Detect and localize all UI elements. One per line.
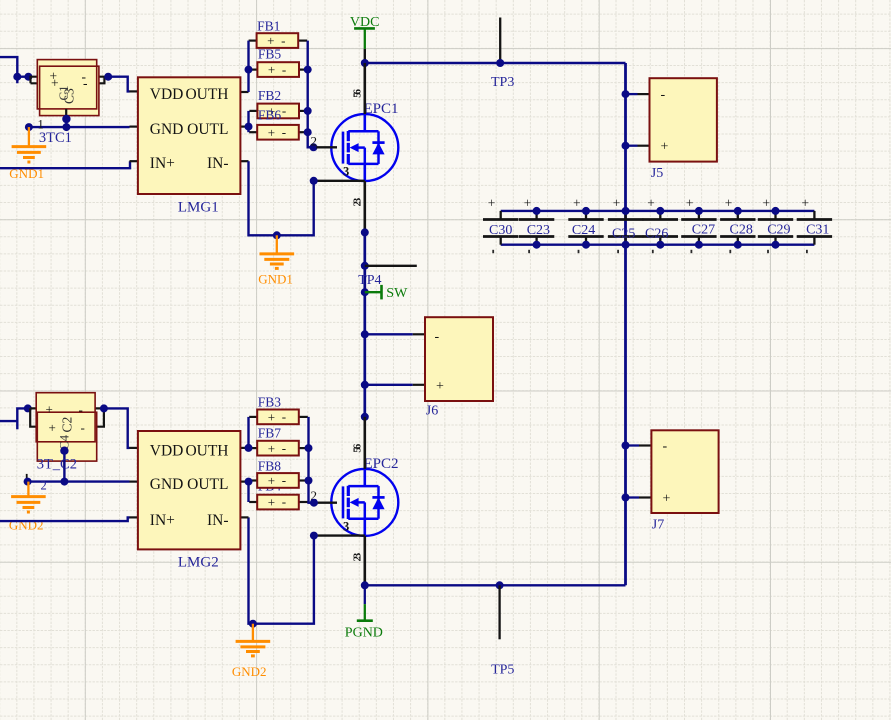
node bbox=[62, 123, 70, 131]
svg-text:C2: C2 bbox=[60, 417, 75, 433]
wire gate EPC2 bbox=[309, 502, 317, 504]
svg-text:GND: GND bbox=[150, 476, 184, 493]
svg-text:C1: C1 bbox=[56, 85, 71, 100]
connector J6 pins bbox=[365, 334, 425, 385]
node bbox=[60, 478, 68, 486]
node bbox=[622, 142, 630, 150]
wire to LMG1 GND bbox=[66, 126, 129, 128]
node bbox=[656, 241, 664, 249]
node bbox=[310, 532, 318, 540]
IC LMG1 left pins bbox=[130, 91, 139, 161]
svg-text:+: + bbox=[268, 495, 275, 510]
ground GND1 (second) bbox=[260, 235, 295, 268]
node bbox=[305, 444, 313, 452]
wire bbox=[65, 119, 67, 127]
svg-text:+: + bbox=[268, 410, 275, 425]
node bbox=[361, 381, 369, 389]
capacitor C27 bbox=[681, 196, 716, 254]
svg-text:+: + bbox=[488, 196, 496, 211]
ground GND2 bbox=[11, 482, 46, 512]
capacitor C2 body bbox=[37, 412, 96, 461]
node bbox=[622, 442, 630, 450]
transistor EPC1 symbol bbox=[343, 114, 385, 181]
svg-text:OUTH: OUTH bbox=[185, 442, 228, 459]
wire bbox=[0, 408, 28, 421]
svg-text:-: - bbox=[282, 473, 286, 488]
svg-text:-: - bbox=[83, 76, 88, 91]
node bbox=[13, 73, 21, 81]
wire bbox=[63, 451, 65, 482]
wire OUTL to FB8/FB4 bbox=[247, 481, 249, 503]
connector J6 body bbox=[425, 317, 493, 401]
capacitor C25 bbox=[608, 196, 643, 254]
ferrite bead FB1 pins bbox=[249, 39, 308, 41]
node bbox=[772, 241, 780, 249]
svg-text:+: + bbox=[661, 140, 669, 155]
svg-text:+: + bbox=[268, 473, 275, 488]
ferrite bead FB4 pins bbox=[249, 501, 308, 503]
node bbox=[100, 404, 108, 412]
ferrite bead FB5 pins bbox=[249, 68, 308, 70]
svg-text:SW: SW bbox=[386, 286, 408, 301]
IC LMG1 right pins bbox=[240, 92, 248, 161]
svg-text:LMG2: LMG2 bbox=[178, 555, 219, 571]
wire capacitor bank top rail bbox=[501, 210, 815, 212]
wire right bus bbox=[624, 63, 627, 585]
wire IN+ net 2 bbox=[0, 517, 130, 521]
svg-text:2: 2 bbox=[311, 133, 318, 148]
ferrite bead FB2 body bbox=[257, 104, 299, 119]
svg-text:C27: C27 bbox=[692, 223, 715, 238]
node bbox=[24, 73, 32, 81]
svg-text:VDD: VDD bbox=[150, 86, 184, 103]
svg-text:+: + bbox=[647, 196, 655, 211]
svg-text:C28: C28 bbox=[730, 223, 753, 238]
svg-text:OUTL: OUTL bbox=[187, 121, 228, 138]
wire OUTH to FB3/FB7 bbox=[247, 417, 249, 448]
svg-text:IN-: IN- bbox=[207, 512, 229, 529]
IC LMG2 left pins bbox=[130, 448, 139, 518]
node bbox=[734, 207, 742, 215]
node bbox=[304, 66, 312, 74]
svg-text:C25: C25 bbox=[612, 226, 635, 241]
connector J7 pins bbox=[626, 446, 652, 498]
wire IN- / gnd return 2 bbox=[249, 517, 314, 623]
svg-text:3T_C2: 3T_C2 bbox=[37, 457, 77, 473]
svg-text:-: - bbox=[435, 330, 440, 345]
node bbox=[533, 207, 541, 215]
IC LMG2 body bbox=[138, 431, 241, 549]
power port PGND bbox=[345, 585, 383, 640]
node bbox=[245, 444, 253, 452]
svg-text:GND: GND bbox=[150, 121, 184, 138]
svg-text:+: + bbox=[801, 196, 809, 211]
wire bbox=[0, 57, 17, 83]
capacitor C31 bbox=[797, 196, 832, 254]
node bbox=[533, 241, 541, 249]
node bbox=[622, 494, 630, 502]
svg-text:3TC1: 3TC1 bbox=[39, 130, 72, 146]
wire bottom bus bbox=[365, 584, 626, 586]
node bbox=[24, 478, 32, 486]
pin tick bbox=[26, 474, 28, 482]
svg-text:J6: J6 bbox=[426, 404, 438, 419]
svg-text:FB6: FB6 bbox=[258, 108, 282, 123]
ground GND2 (second) bbox=[236, 624, 271, 656]
wire drain pin EPC2 bbox=[363, 417, 366, 469]
node bbox=[582, 241, 590, 249]
wire SW bus bbox=[363, 232, 366, 416]
ferrite bead FB7 pins bbox=[249, 447, 308, 449]
IC LMG2 pin names bbox=[150, 442, 229, 529]
svg-text:-: - bbox=[282, 124, 286, 139]
svg-text:C31: C31 bbox=[806, 223, 829, 238]
svg-text:+: + bbox=[268, 441, 275, 456]
node bbox=[62, 115, 70, 123]
ferrite bead FB5 body bbox=[257, 62, 299, 77]
wire FB outputs to gate rail bbox=[308, 41, 317, 148]
node bbox=[245, 478, 253, 486]
svg-text:-: - bbox=[282, 103, 286, 118]
ferrite bead FB4 body bbox=[257, 495, 299, 510]
node bbox=[249, 620, 257, 628]
svg-text:GND1: GND1 bbox=[258, 272, 293, 287]
svg-text:-: - bbox=[81, 420, 85, 435]
capacitor C2/C4 pins bbox=[30, 408, 104, 426]
svg-text:-: - bbox=[282, 62, 286, 77]
svg-text:+: + bbox=[524, 196, 532, 211]
wire OUTH to FB1/FB5 bbox=[247, 41, 249, 92]
capacitor C30 bbox=[483, 196, 518, 254]
wire capacitor bank bottom rail bbox=[501, 243, 815, 245]
svg-text:-: - bbox=[282, 494, 286, 509]
node bbox=[361, 59, 369, 67]
IC LMG1 pin names bbox=[150, 86, 229, 172]
svg-text:TP5: TP5 bbox=[491, 663, 514, 678]
node bbox=[496, 59, 504, 67]
node bbox=[25, 123, 33, 131]
svg-text:+: + bbox=[663, 491, 671, 506]
node bbox=[361, 288, 369, 296]
capacitor C28 bbox=[720, 196, 755, 254]
IC LMG1 body bbox=[138, 77, 241, 194]
svg-text:FB1: FB1 bbox=[257, 19, 280, 34]
node bbox=[245, 66, 253, 74]
svg-text:3: 3 bbox=[343, 165, 349, 179]
node bbox=[273, 231, 281, 239]
svg-text:FB3: FB3 bbox=[258, 395, 282, 410]
test point TP5 bbox=[498, 585, 500, 639]
svg-text:OUTL: OUTL bbox=[187, 476, 228, 493]
svg-text:J7: J7 bbox=[652, 518, 664, 533]
svg-text:C30: C30 bbox=[489, 223, 512, 238]
connector J5 body bbox=[650, 78, 717, 161]
svg-text:+: + bbox=[613, 196, 621, 211]
wire GND2 net bbox=[28, 480, 65, 482]
node bbox=[305, 477, 313, 485]
svg-text:FB5: FB5 bbox=[258, 47, 282, 62]
wire FB outputs to gate rail 2 bbox=[309, 417, 314, 503]
ferrite bead FB6 pins bbox=[249, 131, 308, 133]
node bbox=[695, 241, 703, 249]
transistor EPC2 symbol bbox=[343, 469, 385, 536]
wire OUTL to FB2/FB6 bbox=[247, 111, 249, 132]
svg-text:+: + bbox=[573, 196, 581, 211]
svg-text:3: 3 bbox=[343, 519, 349, 533]
capacitor C3 body bbox=[37, 60, 96, 109]
svg-text:+: + bbox=[763, 196, 771, 211]
wire gate EPC1 bbox=[308, 146, 317, 148]
node bbox=[622, 241, 630, 249]
node bbox=[361, 330, 369, 338]
node bbox=[245, 123, 253, 131]
svg-text:C23: C23 bbox=[527, 223, 550, 238]
svg-text:+: + bbox=[686, 196, 694, 211]
ferrite bead FB3 body bbox=[257, 410, 299, 425]
svg-text:FB2: FB2 bbox=[258, 88, 281, 103]
node bbox=[304, 107, 312, 115]
ferrite bead FB1 body bbox=[257, 33, 299, 48]
svg-text:FB8: FB8 bbox=[258, 459, 282, 474]
capacitor C1 body bbox=[40, 66, 99, 115]
node bbox=[24, 404, 32, 412]
wire IN+ net bbox=[0, 161, 130, 168]
transistor EPC1 body bbox=[331, 114, 398, 181]
ferrite bead FB3 pins bbox=[249, 416, 308, 418]
svg-text:C26: C26 bbox=[645, 226, 668, 241]
node bbox=[582, 207, 590, 215]
node bbox=[622, 90, 630, 98]
svg-text:+: + bbox=[268, 125, 275, 140]
svg-text:TP4: TP4 bbox=[358, 273, 381, 288]
svg-text:-: - bbox=[79, 402, 83, 417]
wire bbox=[16, 421, 18, 429]
wire cap to LMG2 VDD bbox=[104, 408, 130, 448]
ferrite bead FB8 body bbox=[257, 473, 299, 488]
wire source to PGND node bbox=[314, 534, 365, 536]
capacitor C23 bbox=[519, 196, 554, 254]
node bbox=[361, 262, 369, 270]
svg-text:IN+: IN+ bbox=[150, 512, 175, 529]
wire bbox=[17, 75, 28, 77]
node bbox=[310, 177, 318, 185]
node bbox=[310, 143, 318, 151]
ferrite bead FB6 body bbox=[257, 125, 299, 140]
test point TP3 bbox=[499, 18, 501, 64]
svg-text:FB7: FB7 bbox=[258, 426, 282, 441]
connector J5 pins bbox=[626, 94, 650, 146]
wire IN- / gnd return bbox=[249, 161, 314, 235]
capacitor bottom pin bbox=[65, 109, 67, 118]
IC LMG2 right pins bbox=[240, 448, 248, 518]
svg-text:2: 2 bbox=[41, 479, 47, 493]
svg-text:IN+: IN+ bbox=[150, 155, 175, 172]
wire VDC bus bbox=[365, 62, 626, 64]
svg-text:IN-: IN- bbox=[207, 155, 229, 172]
connector J7 body bbox=[651, 430, 718, 513]
ferrite bead FB8 pins bbox=[249, 479, 308, 481]
svg-text:C24: C24 bbox=[572, 223, 595, 238]
svg-text:+: + bbox=[49, 420, 56, 435]
wire VDC pin bbox=[364, 49, 366, 63]
svg-text:GND2: GND2 bbox=[232, 664, 267, 679]
svg-text:-: - bbox=[663, 439, 668, 454]
power port VDC bbox=[350, 15, 380, 49]
svg-text:PGND: PGND bbox=[345, 626, 383, 641]
node bbox=[310, 499, 318, 507]
svg-text:TP3: TP3 bbox=[491, 75, 514, 90]
wire to LMG2 GND bbox=[64, 480, 129, 482]
node bbox=[695, 207, 703, 215]
ferrite bead FB7 body bbox=[257, 441, 299, 456]
node bbox=[304, 128, 312, 136]
node bbox=[361, 228, 369, 236]
wire cap bottom pin bbox=[63, 461, 65, 469]
node bbox=[60, 447, 68, 455]
wire GND1 net bbox=[29, 126, 67, 128]
svg-text:LMG1: LMG1 bbox=[178, 199, 219, 215]
node bbox=[361, 413, 369, 421]
test point TP4 bbox=[365, 265, 417, 267]
svg-text:-: - bbox=[282, 409, 286, 424]
svg-text:-: - bbox=[281, 33, 285, 48]
wire drain pin EPC1 bbox=[363, 63, 366, 114]
capacitor C26 bbox=[643, 196, 678, 254]
svg-text:+: + bbox=[268, 62, 275, 77]
svg-text:+: + bbox=[436, 379, 444, 394]
node bbox=[656, 207, 664, 215]
ground GND1 bbox=[12, 127, 47, 162]
svg-text:-: - bbox=[282, 440, 286, 455]
svg-text:OUTH: OUTH bbox=[185, 86, 228, 103]
power port SW bbox=[365, 285, 408, 301]
node bbox=[734, 241, 742, 249]
node bbox=[104, 73, 112, 81]
svg-text:GND2: GND2 bbox=[9, 518, 44, 533]
transistor EPC2 body bbox=[331, 469, 398, 536]
wire source to SW node bbox=[314, 180, 365, 182]
svg-text:+: + bbox=[725, 196, 733, 211]
node bbox=[361, 581, 369, 589]
svg-text:J5: J5 bbox=[651, 166, 663, 181]
wire source pin EPC2 bbox=[363, 536, 366, 585]
capacitor C4 body bbox=[36, 393, 95, 442]
capacitor C24 bbox=[568, 196, 603, 254]
svg-text:VDD: VDD bbox=[150, 442, 184, 459]
capacitor C29 bbox=[758, 196, 793, 254]
svg-text:-: - bbox=[661, 87, 666, 102]
node bbox=[622, 207, 630, 215]
svg-text:C29: C29 bbox=[767, 223, 790, 238]
node bbox=[496, 581, 504, 589]
svg-text:+: + bbox=[46, 401, 53, 416]
wire source pin EPC1 bbox=[363, 181, 366, 232]
ferrite bead FB2 pins bbox=[249, 110, 308, 112]
node bbox=[772, 207, 780, 215]
wire cap to LMG1 VDD bbox=[108, 77, 129, 92]
capacitor C1/C3 pins bbox=[31, 77, 105, 84]
